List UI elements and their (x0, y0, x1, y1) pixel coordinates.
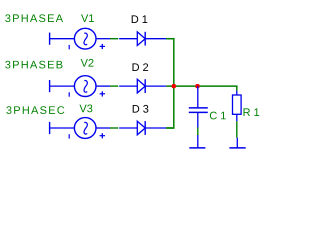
voltage source V3 (74, 118, 96, 139)
V2 plus mark (100, 91, 105, 96)
wire port C to V3 (50, 127, 75, 129)
R1 top pin (236, 91, 238, 95)
wire V1 to D1 (110, 38, 118, 40)
vertical bus wire D1-D3 (166, 39, 174, 128)
D3 anode pin (119, 127, 137, 129)
power port 3PHASEA bar (49, 33, 51, 45)
D1 cathode pin (145, 38, 166, 40)
ground bar R1 (229, 147, 245, 149)
wire V2 to D2 (110, 85, 118, 87)
wire D3 to node (166, 127, 174, 129)
resistor R1 (233, 95, 242, 114)
R1 bottom pin (236, 114, 238, 121)
V2 minus mark (68, 92, 70, 96)
voltage source V2 (74, 76, 96, 97)
designator D1 (132, 15, 148, 23)
diode D1 (137, 32, 145, 46)
wire port A to V1 (50, 38, 75, 40)
ground port stub R1 (236, 138, 238, 148)
V1 right pin (96, 38, 110, 40)
ground bar C1 (189, 147, 205, 149)
net label 3PHASEA (5, 14, 63, 22)
V3 right pin (96, 127, 110, 129)
designator V3 (79, 105, 92, 113)
wire C1 to ground (197, 128, 199, 136)
wire D1 to node (166, 38, 174, 40)
D1 anode pin (119, 38, 137, 40)
designator D3 (133, 105, 149, 113)
V1 plus mark (100, 44, 105, 49)
designator C1 (210, 112, 226, 120)
bus wire D2 to R1 column (166, 85, 237, 87)
wire V3 to D3 (110, 127, 118, 129)
V3 plus mark (100, 133, 105, 138)
V3 minus mark (68, 134, 70, 138)
designator D2 (133, 63, 149, 71)
V1 minus mark (68, 45, 70, 49)
designator R1 (244, 108, 260, 116)
C1 bottom pin (197, 112, 199, 127)
net label 3PHASEB (5, 61, 62, 69)
junction node at C1 (195, 84, 199, 88)
capacitor C1 (189, 108, 208, 113)
net label 3PHASEC (6, 106, 64, 114)
designator V1 (81, 14, 94, 22)
D2 anode pin (119, 85, 137, 87)
designator V2 (81, 59, 94, 67)
V2 right pin (96, 85, 110, 87)
wire port B to V2 (50, 85, 75, 87)
ground port stub C1 (197, 135, 199, 148)
C1 top pin (197, 86, 199, 107)
D2 cathode pin (145, 85, 166, 87)
junction node at vertical bus (172, 84, 176, 88)
power port 3PHASEB bar (49, 80, 51, 92)
wire bus to R1 (236, 86, 238, 91)
wire R1 to ground (236, 121, 238, 137)
diode D2 (137, 79, 145, 93)
voltage source V1 (74, 28, 96, 49)
diode D3 (137, 121, 145, 135)
D3 cathode pin (145, 127, 166, 129)
power port 3PHASEC bar (49, 122, 51, 134)
